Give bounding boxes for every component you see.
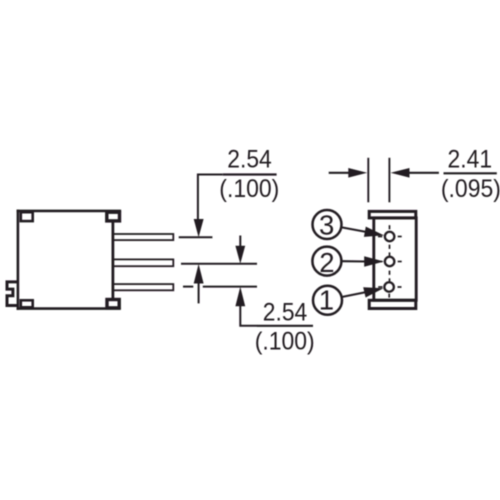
callout numbers (319, 209, 335, 315)
leader circle1 to hole1 (342, 292, 366, 297)
svg-text:2: 2 (319, 247, 334, 278)
pin 2 (middle, side view) (113, 259, 174, 266)
corner square bottom-left (21, 300, 33, 307)
width dimension extension lines (367, 158, 369, 203)
extension line at pin3 level (left segment) (183, 286, 193, 288)
leader circle2 to hole2 (342, 260, 366, 262)
corner square top-left (21, 212, 33, 221)
screw slot profile (left zigzag) (7, 282, 19, 306)
up arrow to pin2 line (shaft down) (198, 283, 200, 304)
pin hole 2 (middle) (385, 257, 395, 267)
callout circle 3 (313, 210, 342, 239)
extension line at pin3 level (right segment) (203, 286, 257, 288)
svg-text:3: 3 (319, 209, 334, 240)
pin hole 1 (bottom) (384, 282, 394, 292)
svg-text:2.54: 2.54 (263, 298, 308, 326)
bottom dimension fraction bar (257, 325, 313, 327)
svg-text:(.100): (.100) (219, 175, 279, 203)
right dimension fraction bar (444, 172, 497, 174)
svg-text:2.54: 2.54 (227, 145, 272, 173)
svg-text:(.095): (.095) (441, 175, 500, 203)
corner square bottom-right (107, 300, 119, 308)
callout circle 2 (312, 247, 341, 276)
front view bottom cap (369, 300, 416, 308)
dimension text top: 2.54 / (.100) (219, 145, 500, 355)
side view body bottom edge (17, 307, 121, 310)
centerline dashes (horizontal at each hole) (378, 237, 402, 288)
pin 1 (top, side view) (113, 234, 174, 240)
front view main body (374, 218, 416, 300)
pin 3 (bottom, side view) (113, 284, 174, 290)
callout circle 1 (313, 286, 342, 315)
side view body top edge (17, 210, 122, 213)
down arrow to pin1 line (194, 219, 204, 237)
leader for top dimension label (198, 175, 223, 221)
down arrow to pin2 line (shaft up) (239, 236, 241, 249)
pin hole 3 (top) (385, 232, 395, 242)
extension line at pin1 level (179, 236, 213, 238)
extension line at pin2 level (181, 263, 257, 265)
top dimension fraction bar (223, 173, 277, 175)
front view top cap (369, 211, 416, 218)
width dimension right arrow (409, 172, 439, 174)
up arrow to pin3 line with leader to bottom label (240, 305, 257, 326)
leader circle3 to hole3 (342, 227, 366, 232)
side view body left edge (17, 210, 20, 310)
centerline dashes (vertical) (388, 225, 390, 297)
svg-text:2.41: 2.41 (448, 146, 493, 174)
svg-text:(.100): (.100) (255, 327, 315, 355)
corner square top-right (107, 212, 120, 221)
width dimension left arrow (329, 172, 350, 174)
side view body right edge (112, 222, 115, 300)
svg-text:1: 1 (319, 284, 334, 315)
